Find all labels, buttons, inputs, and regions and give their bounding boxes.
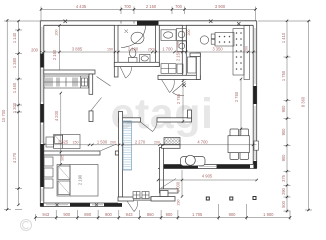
wall nook top <box>190 53 200 57</box>
kitchen sink <box>200 36 208 44</box>
outer wall right <box>253 21 257 169</box>
svg-text:200: 200 <box>245 46 249 52</box>
left col2 <box>18 21 20 205</box>
dim ticks interior row top <box>43 51 255 53</box>
svg-text:305: 305 <box>61 155 65 161</box>
svg-text:150: 150 <box>107 48 113 52</box>
shower <box>121 26 146 48</box>
outer wall bottom-left <box>40 203 122 207</box>
svg-text:700: 700 <box>175 4 183 9</box>
wall pier room2 east lower <box>89 111 93 122</box>
svg-text:1 380: 1 380 <box>12 57 17 68</box>
door wc <box>162 80 175 93</box>
red texts room row mid <box>54 91 239 205</box>
svg-text:200: 200 <box>31 48 39 53</box>
wall entrance jog <box>118 197 134 201</box>
svg-text:900: 900 <box>63 212 71 217</box>
svg-text:1 750: 1 750 <box>281 70 286 81</box>
dim ticks bottom <box>34 216 291 218</box>
svg-text:890: 890 <box>84 212 92 217</box>
kitchen counter band <box>233 26 249 80</box>
room2 bed <box>46 135 80 149</box>
dim ticks top <box>40 8 257 10</box>
wall room2/3 <box>44 151 100 155</box>
left col1 <box>6 20 8 210</box>
svg-text:375: 375 <box>281 174 286 182</box>
outer wall left <box>40 21 44 207</box>
svg-text:1 700: 1 700 <box>162 47 173 52</box>
svg-text:150: 150 <box>73 140 79 144</box>
svg-text:2 150: 2 150 <box>176 50 181 61</box>
window ticks <box>40 20 241 207</box>
washbasin bathroom <box>140 55 151 63</box>
svg-text:2 270: 2 270 <box>135 139 146 144</box>
wall entry east <box>160 148 164 190</box>
watermark copyright <box>21 220 32 231</box>
svg-text:700: 700 <box>124 4 132 9</box>
svg-text:900: 900 <box>281 128 286 136</box>
wall living stub <box>162 145 181 149</box>
svg-text:3 885: 3 885 <box>72 47 83 52</box>
svg-text:2 190: 2 190 <box>78 174 83 185</box>
svg-text:1 900: 1 900 <box>263 212 274 217</box>
wall hall south west <box>119 118 141 122</box>
svg-text:4 700: 4 700 <box>197 139 208 144</box>
svg-text:3 900: 3 900 <box>215 4 226 9</box>
red texts right cols <box>281 32 306 208</box>
wall hall south east <box>157 118 192 122</box>
svg-text:900: 900 <box>281 105 286 113</box>
threshold dotted <box>134 198 161 201</box>
svg-text:290: 290 <box>281 187 286 195</box>
red texts bottom row <box>42 212 274 217</box>
svg-text:200: 200 <box>110 140 116 144</box>
svg-text:2 150: 2 150 <box>146 4 157 9</box>
svg-text:900: 900 <box>166 212 174 217</box>
svg-text:2 100: 2 100 <box>128 47 139 52</box>
red texts room row top <box>31 30 248 62</box>
window glass center lines <box>42 27 255 205</box>
dim ticks right cols <box>286 20 310 213</box>
wall wc/kitchen <box>182 25 186 79</box>
dim ticks interior row mid <box>43 24 258 197</box>
wall wc nook <box>196 53 200 80</box>
sofa <box>181 155 206 166</box>
closet with hangers <box>44 76 89 88</box>
svg-text:200: 200 <box>187 30 191 36</box>
right col1 <box>286 21 288 213</box>
dim ticks left cols <box>6 19 20 211</box>
outer wall bottom-right <box>158 165 257 169</box>
wall stub up kitchen <box>188 110 192 118</box>
svg-text:860: 860 <box>147 212 155 217</box>
top dim row <box>41 8 256 10</box>
svg-text:500: 500 <box>281 200 286 208</box>
wall stub room2 east upper <box>89 74 93 94</box>
kitchen table <box>211 33 234 47</box>
wall room1 south <box>44 70 95 74</box>
svg-text:4 905: 4 905 <box>202 174 213 179</box>
wc washbasin <box>161 30 176 41</box>
entrance door swing <box>127 201 138 212</box>
red dimension texts top <box>76 4 226 9</box>
svg-text:1 140: 1 140 <box>12 32 17 43</box>
svg-text:8 360: 8 360 <box>301 96 306 107</box>
svg-text:900: 900 <box>229 212 237 217</box>
svg-text:(50): (50) <box>148 48 154 52</box>
room3 bed <box>44 157 98 196</box>
wall room2/3 cap <box>115 151 118 155</box>
wc dryer <box>177 41 187 51</box>
wall bathroom/wc <box>156 25 160 66</box>
svg-text:1 500: 1 500 <box>97 139 108 144</box>
door leaf room1 <box>97 77 111 87</box>
door kitchen <box>173 82 186 96</box>
svg-text:2 150: 2 150 <box>52 49 57 60</box>
T element exterior <box>151 191 175 202</box>
svg-text:2 325: 2 325 <box>58 139 69 144</box>
toilet bathroom <box>129 49 138 63</box>
door hall <box>141 122 158 132</box>
wall dark fills <box>40 21 256 207</box>
svg-text:4 270: 4 270 <box>12 152 17 163</box>
svg-text:900: 900 <box>105 212 113 217</box>
row rooms top <box>44 51 257 53</box>
svg-text:1 000: 1 000 <box>175 181 180 192</box>
wall entry porch <box>160 189 179 193</box>
porch leader line <box>161 179 176 189</box>
porch columns <box>206 197 256 201</box>
wall bathroom south <box>114 62 159 66</box>
entry steps grid <box>133 192 149 199</box>
wall corridor east <box>119 112 123 198</box>
boiler hatched <box>164 138 180 145</box>
svg-text:1 300: 1 300 <box>12 102 17 113</box>
wc cabinet <box>161 57 196 73</box>
svg-text:250: 250 <box>176 42 180 48</box>
svg-text:2 760: 2 760 <box>234 91 239 102</box>
svg-text:4 435: 4 435 <box>76 4 87 9</box>
wall bathroom west <box>114 25 118 77</box>
svg-text:290: 290 <box>176 200 180 206</box>
svg-text:200: 200 <box>154 140 160 144</box>
chimney hatched <box>123 121 132 170</box>
wc washer <box>177 29 187 41</box>
svg-text:943: 943 <box>126 212 134 217</box>
svg-text:1 705: 1 705 <box>192 212 203 217</box>
wall wc south <box>158 75 200 79</box>
red texts left cols <box>1 32 17 163</box>
door room3 leaf <box>101 144 117 151</box>
svg-text:943: 943 <box>42 212 50 217</box>
svg-text:900: 900 <box>281 154 286 162</box>
door room2 <box>91 98 102 111</box>
door bathroom <box>120 67 132 79</box>
interior walls <box>44 25 201 201</box>
svg-text:3 350: 3 350 <box>212 47 223 52</box>
right col2 <box>308 21 310 210</box>
outer wall top <box>40 21 256 26</box>
svg-text:4 200: 4 200 <box>54 110 59 121</box>
dining table <box>228 129 249 159</box>
svg-text:2 765: 2 765 <box>176 93 181 104</box>
svg-text:10 700: 10 700 <box>1 109 6 122</box>
svg-text:200: 200 <box>55 30 59 36</box>
bottom row <box>36 217 291 219</box>
svg-text:1 410: 1 410 <box>281 32 286 43</box>
svg-text:1 460: 1 460 <box>12 82 17 93</box>
window sill box right <box>254 141 259 150</box>
